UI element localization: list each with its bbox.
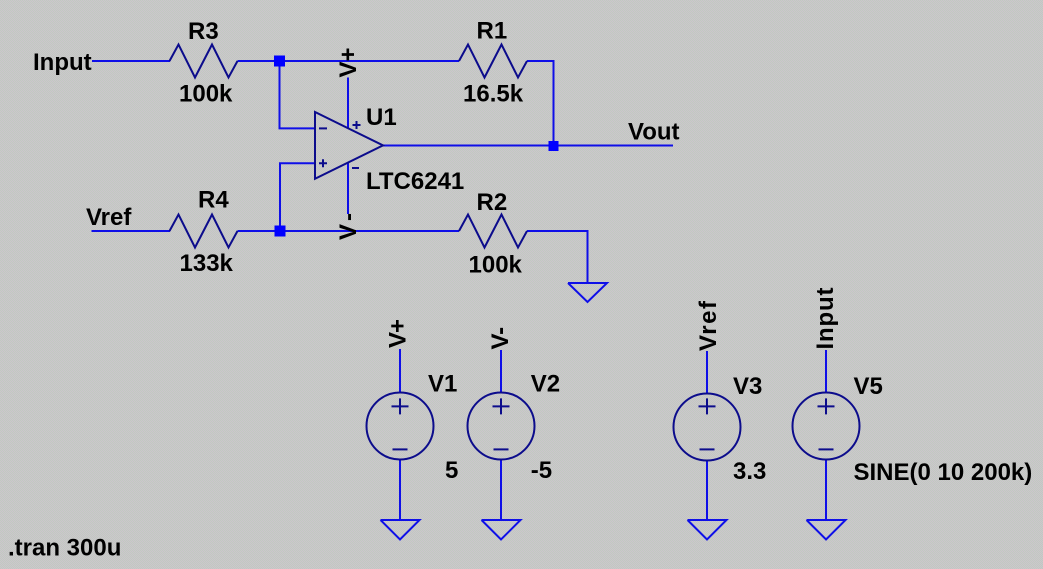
V3 minus marker: [700, 448, 715, 450]
svg-text:Input: Input: [33, 49, 92, 76]
wire: V+ power pin of op-amp: [347, 78, 349, 129]
wire: V- flag to V2 top: [500, 350, 502, 393]
V1 minus marker: [393, 448, 408, 450]
V1 plus marker: [392, 398, 409, 414]
wire: Input flag to V5 top: [825, 350, 827, 394]
voltage source V3 circle: [674, 394, 741, 461]
V3 plus marker: [699, 398, 716, 414]
svg-text:-5: -5: [531, 457, 552, 484]
wire: node B up: [279, 163, 281, 231]
svg-text:100k: 100k: [179, 81, 233, 108]
ground at V5: [807, 520, 846, 540]
wire: R4 to R2 through node: [238, 230, 460, 232]
voltage source V5 circle: [793, 393, 860, 460]
wire: V+ flag to V1 top: [399, 349, 401, 393]
svg-text:R4: R4: [198, 187, 229, 214]
svg-text:5: 5: [445, 457, 458, 484]
op-amp non-inverting input marker: [319, 159, 327, 167]
wire: R2 to corner: [527, 230, 589, 232]
op-amp U1 triangle: [315, 112, 383, 179]
wire: R3 to R1 through node: [238, 60, 460, 62]
V5 minus marker: [819, 448, 834, 450]
junction node B: [275, 226, 286, 237]
wire: to inverting input: [279, 127, 316, 129]
svg-text:U1: U1: [366, 104, 397, 131]
op-amp V- power pin marker: [352, 167, 359, 169]
ground at V1: [381, 520, 420, 540]
junction node Vout: [549, 141, 559, 151]
svg-text:V5: V5: [854, 373, 883, 400]
V2 minus marker: [494, 448, 509, 450]
resistor R1: [459, 45, 527, 78]
wire: corner down to output node: [553, 60, 555, 146]
ground at V3: [688, 520, 727, 540]
wire: Vref flag to V3 top: [706, 351, 708, 394]
svg-text:133k: 133k: [180, 250, 234, 277]
wire: to non-inverting input: [279, 162, 315, 164]
svg-text:Vout: Vout: [628, 119, 680, 146]
wire: R1 to corner: [527, 60, 555, 62]
svg-text:Vref: Vref: [695, 300, 722, 351]
voltage source V1 circle: [367, 393, 434, 460]
svg-text:V1: V1: [428, 371, 457, 398]
resistor R4: [170, 215, 238, 248]
svg-text:V3: V3: [733, 373, 762, 400]
resistor R3: [170, 45, 238, 78]
wire: Vref to R4: [92, 230, 171, 232]
svg-text:V-: V-: [487, 327, 514, 350]
svg-text:V+: V+: [385, 319, 412, 348]
voltage source V2 circle: [468, 393, 535, 460]
V2 plus marker: [493, 398, 510, 414]
svg-text:V-: V-: [335, 213, 362, 240]
wire: V2 bottom to ground: [500, 460, 502, 521]
svg-text:V2: V2: [531, 371, 560, 398]
wire: V1 bottom to ground: [399, 460, 401, 521]
svg-text:R1: R1: [477, 18, 508, 45]
wire: V3 bottom to ground: [706, 460, 708, 520]
wire: node A down: [279, 61, 281, 128]
svg-text:.tran 300u: .tran 300u: [8, 534, 121, 561]
junction node A: [274, 56, 285, 67]
op-amp V+ power pin marker: [353, 121, 361, 129]
wire: V5 bottom to ground: [825, 459, 827, 520]
svg-text:Input: Input: [812, 288, 839, 350]
svg-text:SINE(0 10 200k): SINE(0 10 200k): [854, 459, 1033, 486]
svg-text:16.5k: 16.5k: [463, 81, 524, 108]
V5 plus marker: [818, 398, 835, 414]
svg-text:R3: R3: [188, 18, 219, 45]
svg-text:LTC6241: LTC6241: [366, 168, 464, 195]
op-amp inverting input marker: [319, 127, 327, 129]
wire: corner down to ground: [587, 230, 589, 283]
ground at V2: [482, 520, 521, 540]
wire: op-amp output to Vout: [383, 145, 673, 147]
svg-text:R2: R2: [477, 189, 508, 216]
wire: Input to R3: [92, 60, 170, 62]
svg-text:Vref: Vref: [86, 204, 132, 231]
svg-text:100k: 100k: [469, 252, 523, 279]
ground at R2: [568, 283, 607, 302]
resistor R2: [459, 215, 527, 248]
svg-text:3.3: 3.3: [733, 458, 766, 485]
svg-text:V+: V+: [335, 48, 362, 78]
wire: V- power pin of op-amp: [347, 163, 349, 214]
